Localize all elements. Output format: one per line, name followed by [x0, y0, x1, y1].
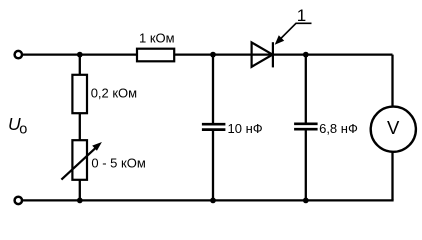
terminal input top	[15, 51, 22, 58]
svg-text:0 - 5 кОм: 0 - 5 кОм	[91, 156, 145, 171]
resistor R1 1 kOhm	[137, 49, 174, 62]
node junction top-left	[77, 52, 83, 58]
diode VD1	[252, 42, 273, 67]
svg-text:6,8 нФ: 6,8 нФ	[319, 121, 358, 136]
capacitor C2 plates	[294, 124, 318, 129]
wire capacitor C1 branch	[212, 55, 214, 124]
wire top rail	[23, 53, 393, 55]
svg-text:V: V	[387, 117, 400, 138]
node junction bottom C1	[210, 198, 216, 204]
wire left divider branch	[79, 55, 81, 201]
node junction bottom C2	[303, 198, 309, 204]
svg-text:о: о	[19, 121, 27, 137]
variable resistor arrow	[61, 142, 102, 180]
node junction top C2	[303, 52, 309, 58]
node junction bottom-left	[77, 198, 83, 204]
node junction top C1	[210, 52, 216, 58]
wire capacitor C2 branch	[305, 55, 307, 123]
capacitor C1 plates	[202, 124, 226, 129]
resistor R3 variable 0-5 kOhm	[72, 140, 87, 180]
callout leader to diode	[275, 23, 312, 44]
svg-text:1: 1	[297, 6, 306, 25]
wire right drop to voltmeter	[391, 55, 393, 201]
svg-text:1 кОм: 1 кОм	[139, 31, 175, 46]
voltmeter PV1	[371, 107, 416, 152]
terminal input bottom	[15, 197, 22, 204]
resistor R2 0,2 kOhm	[72, 75, 87, 113]
svg-text:0,2 кОм: 0,2 кОм	[91, 86, 137, 101]
wire bottom rail	[23, 199, 394, 201]
svg-text:10 нФ: 10 нФ	[228, 121, 263, 136]
